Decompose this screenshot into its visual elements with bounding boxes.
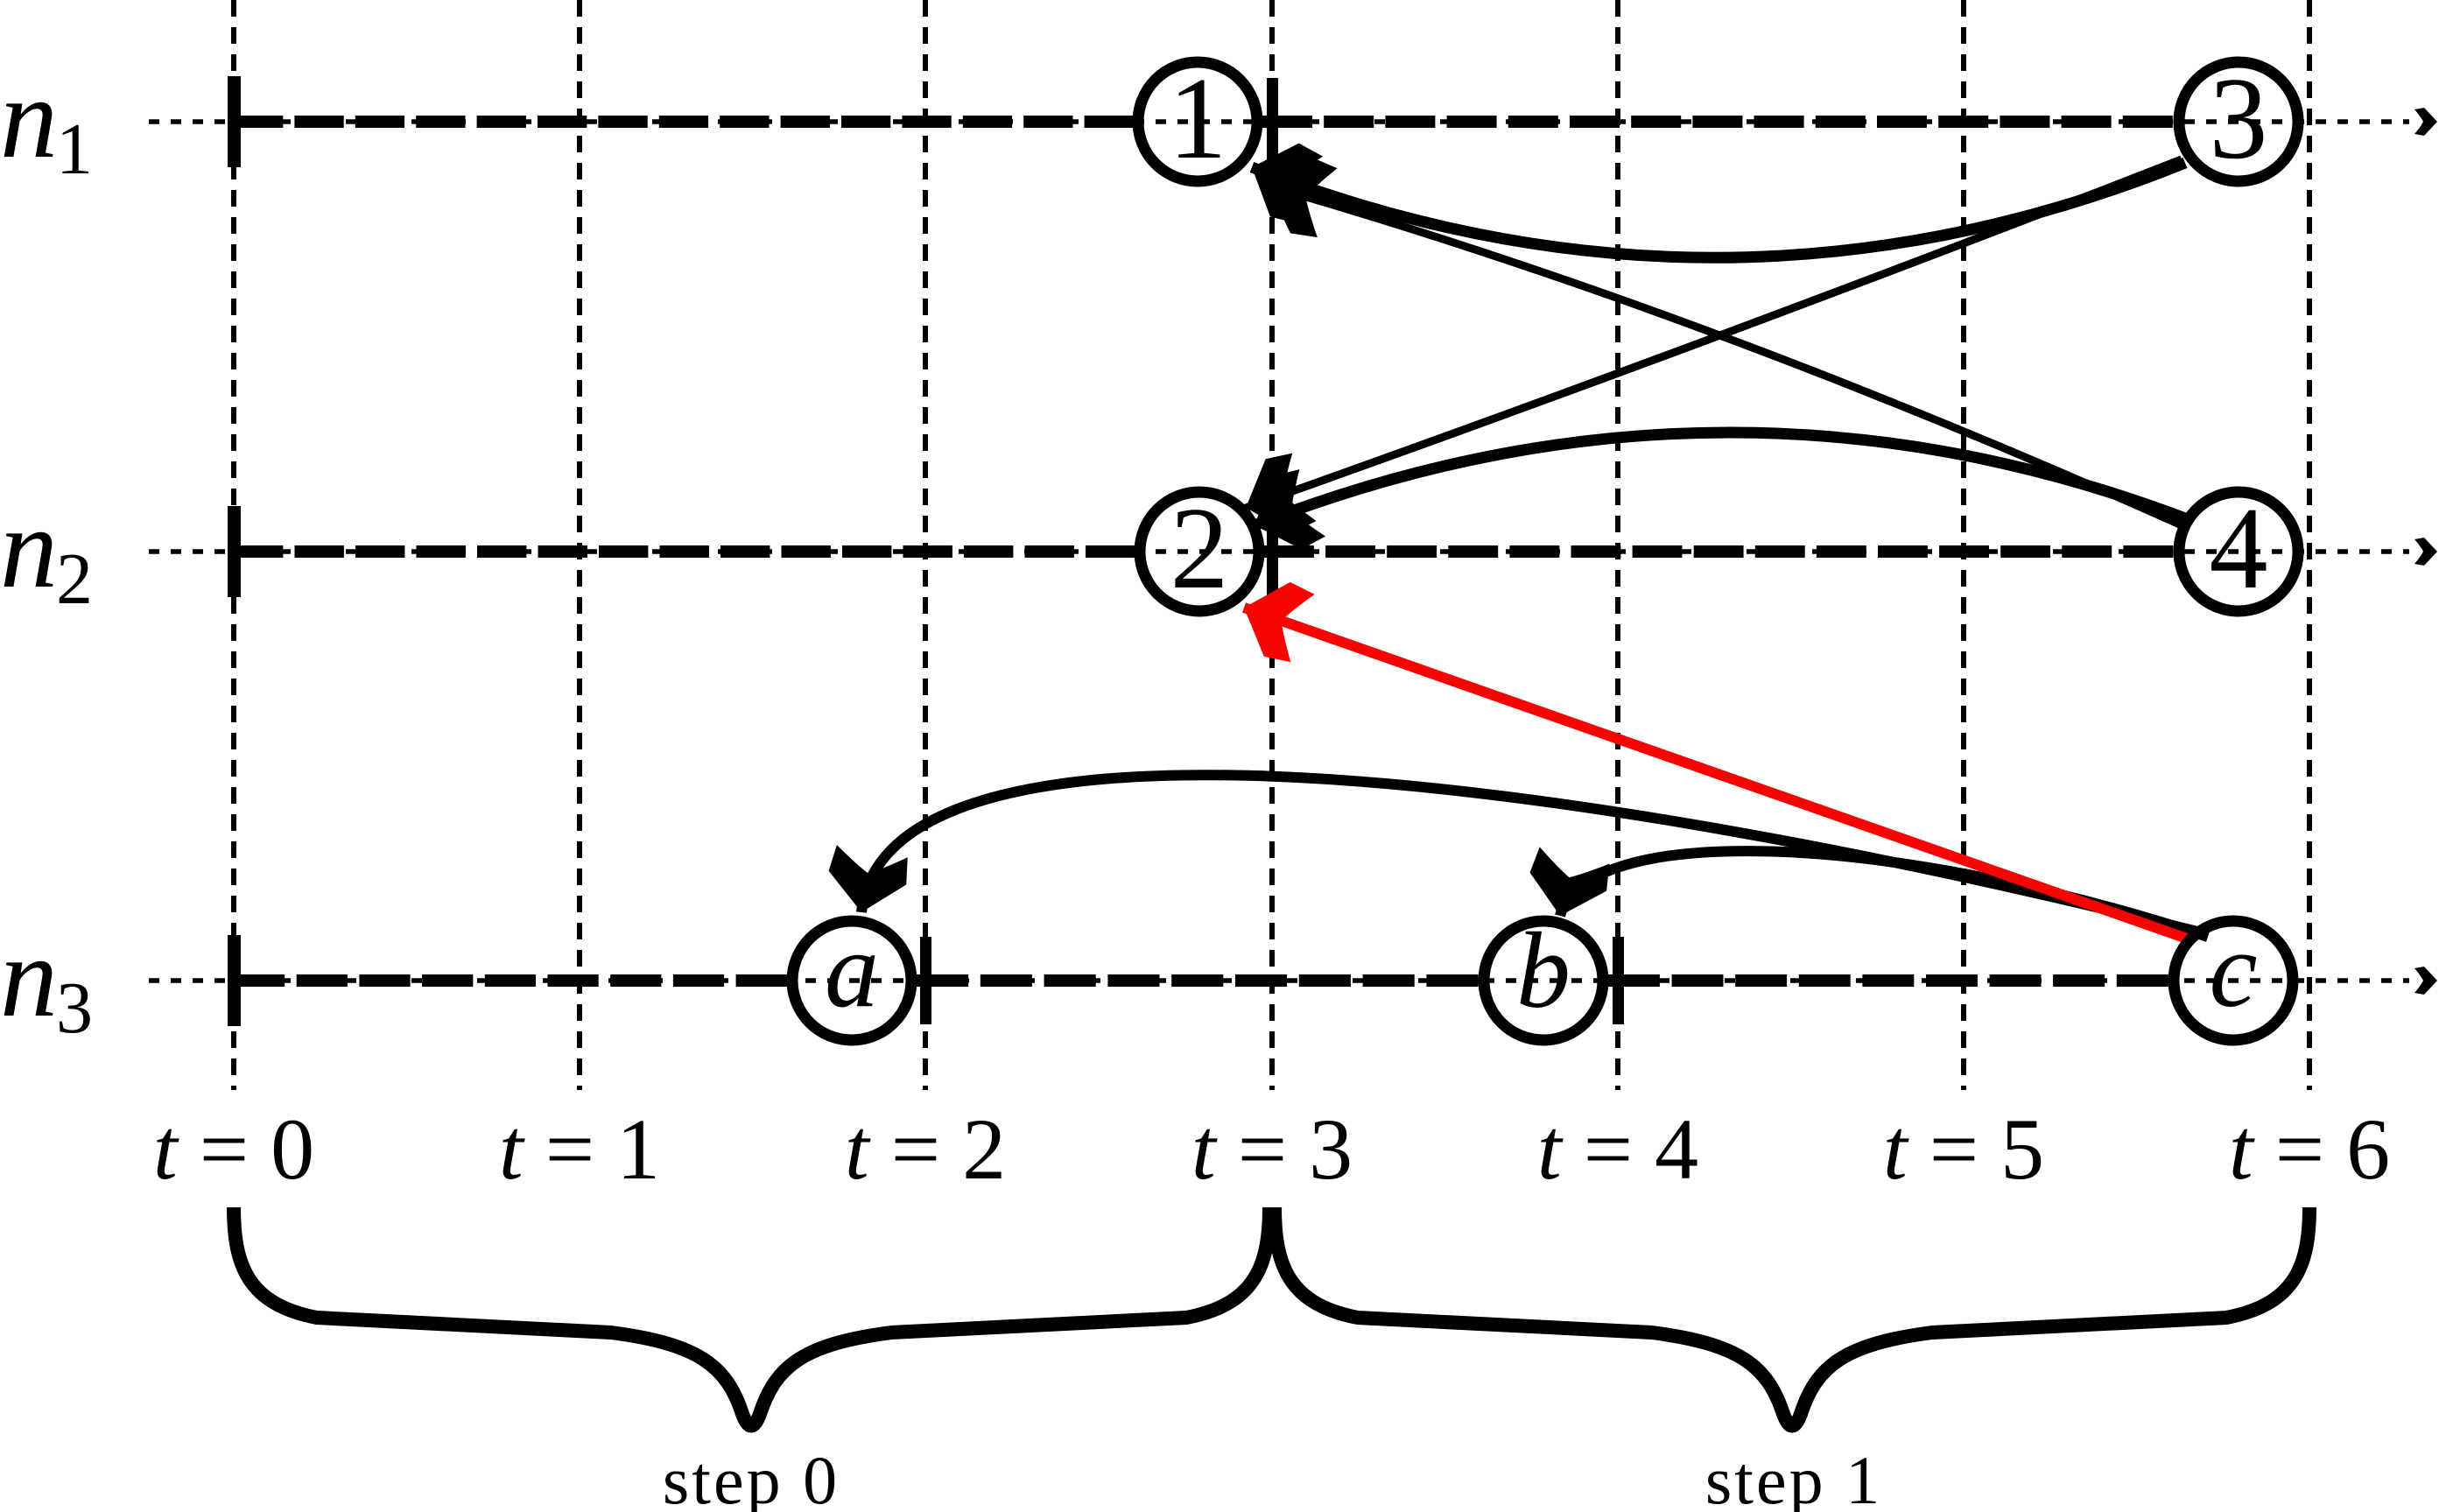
- event circle 1: [1138, 62, 1257, 181]
- axis n3 arrowhead: [2414, 967, 2437, 995]
- svg-text:n: n: [0, 912, 58, 1041]
- t=0 tick n1: [228, 76, 241, 167]
- svg-text:t = 4: t = 4: [1537, 1101, 1698, 1198]
- event tick t=2 n3: [920, 937, 931, 1024]
- event tick t=3 n2: [1267, 508, 1278, 595]
- gridline t=4: [1615, 0, 1620, 1090]
- timeline n3 thick dashed segment t0-eventa: [234, 974, 787, 987]
- gridline t=2: [923, 0, 928, 1090]
- event circle fills: [787, 57, 2303, 1045]
- event circle 4: [2179, 492, 2298, 611]
- svg-text:3: 3: [56, 967, 93, 1049]
- event tick t=3 n1: [1267, 78, 1278, 165]
- event circle 2: [1140, 492, 1259, 611]
- event circle 3: [2179, 62, 2298, 181]
- svg-text:b: b: [1516, 911, 1571, 1030]
- timeline n3 thick dashed segment eventa-eventb: [917, 974, 1479, 987]
- timeline n2 thick dashed segment t0-event2: [234, 545, 1135, 558]
- svg-text:t = 0: t = 0: [153, 1101, 314, 1198]
- event circle b: [1484, 921, 1603, 1040]
- event circle c: [2174, 921, 2293, 1040]
- gridline t=1: [577, 0, 582, 1090]
- axis n2 arrowhead: [2414, 538, 2437, 566]
- t=0 tick n2: [228, 506, 241, 597]
- gridline t=6: [2307, 0, 2312, 1090]
- t=0 tick n3: [228, 935, 241, 1026]
- brace step 0: [234, 1207, 1269, 1426]
- svg-text:2: 2: [1170, 483, 1229, 613]
- message curve c to a: [861, 775, 2204, 933]
- brace step 1: [1275, 1207, 2309, 1426]
- svg-text:t = 6: t = 6: [2229, 1101, 2390, 1198]
- svg-text:4: 4: [2210, 483, 2268, 613]
- svg-text:step 1: step 1: [1705, 1442, 1882, 1512]
- svg-text:a: a: [825, 910, 879, 1030]
- event circle b fill: [1479, 916, 1608, 1045]
- axis n2 thin dotted: [149, 549, 2409, 554]
- message curve 4 to 2: [1255, 433, 2185, 525]
- svg-text:n: n: [0, 53, 58, 182]
- gridline t=5: [1961, 0, 1966, 1090]
- event circle 2 fill: [1135, 487, 1264, 616]
- timeline n1 thick dashed segment t0-event1: [234, 116, 1133, 128]
- svg-text:2: 2: [56, 538, 93, 620]
- svg-text:c: c: [2209, 910, 2257, 1030]
- timeline n2 thick dashed segment event2-event4: [1264, 545, 2174, 558]
- axis n1 thin dotted: [149, 119, 2409, 124]
- event circle 4 fill: [2174, 487, 2303, 616]
- svg-text:3: 3: [2210, 53, 2268, 183]
- event circle c fill: [2168, 916, 2298, 1045]
- svg-text:t = 3: t = 3: [1191, 1101, 1353, 1198]
- event circle 1 fill: [1133, 57, 1262, 186]
- message curve 3 to 1: [1252, 163, 2185, 257]
- svg-text:1: 1: [1169, 53, 1227, 183]
- gridline t=3: [1269, 0, 1275, 1090]
- message straight 3 to 2: [1246, 159, 2182, 508]
- timeline n3 thick dashed segment eventb-eventc: [1608, 974, 2168, 987]
- red message c to 2: [1244, 608, 2187, 939]
- svg-text:step 0: step 0: [663, 1442, 840, 1512]
- timeline n1 thick dashed segment event1-event3: [1262, 116, 2174, 128]
- svg-text:1: 1: [56, 109, 93, 190]
- gridline t=0: [231, 0, 236, 1090]
- event tick t=4 n3: [1613, 937, 1624, 1024]
- event circle a: [792, 921, 911, 1040]
- axis n1 arrowhead: [2414, 108, 2437, 136]
- svg-text:t = 5: t = 5: [1883, 1101, 2044, 1198]
- event circle a fill: [787, 916, 917, 1045]
- message straight 4 to 1: [1268, 186, 2182, 525]
- message curve c to b: [1560, 851, 2208, 937]
- svg-text:n: n: [0, 483, 58, 612]
- svg-text:t = 2: t = 2: [845, 1101, 1006, 1198]
- axis n3 thin dotted: [149, 978, 2409, 983]
- event circle 3 fill: [2174, 57, 2303, 186]
- svg-text:t = 1: t = 1: [499, 1101, 660, 1198]
